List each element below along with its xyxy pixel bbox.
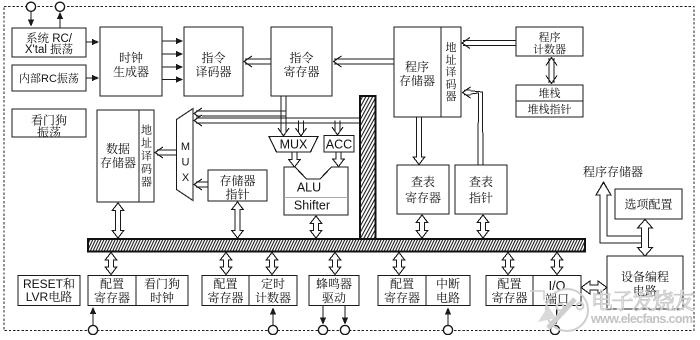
wire buzzer driver to pin P6 — [342, 306, 348, 325]
data memory 数据存储器 with address decoder strip — [97, 110, 154, 202]
ALU / Shifter U1 — [284, 167, 348, 215]
wire clock generator to decoder 1 — [162, 38, 183, 44]
wire buzzer driver to pin P5 — [320, 306, 326, 325]
svg-text:寄存器: 寄存器 — [491, 289, 527, 306]
wire MUX1 to data memory address decoder — [155, 147, 177, 158]
svg-text:堆栈指针: 堆栈指针 — [528, 101, 572, 117]
wire bus to buzzer driver — [329, 253, 341, 275]
svg-text:时钟: 时钟 — [150, 289, 174, 306]
svg-text:器: 器 — [141, 174, 152, 190]
pin P2 (top circle) — [55, 2, 64, 11]
wire data memory to bus — [112, 203, 124, 238]
svg-text:计数器: 计数器 — [255, 289, 291, 306]
wire table lookup register to bus — [416, 215, 428, 238]
wire ACC to ALU — [333, 152, 345, 167]
watchdog oscillator 看门狗振荡 — [12, 109, 86, 141]
svg-text:驱动: 驱动 — [322, 289, 346, 306]
svg-text:LVR电路: LVR电路 — [26, 288, 72, 305]
clock generator 时钟生成器 — [100, 27, 162, 96]
svg-text:指针: 指针 — [225, 186, 249, 203]
svg-text:生成器: 生成器 — [113, 63, 149, 80]
wire clock generator to decoder 3 — [162, 64, 183, 70]
svg-text:Shifter: Shifter — [294, 199, 330, 213]
bus (vertical data bus bar) — [280, 95, 455, 242]
svg-text:存储器: 存储器 — [100, 154, 136, 171]
wire bus to timer counter — [266, 253, 278, 275]
svg-text:X'tal 振荡: X'tal 振荡 — [25, 41, 73, 57]
option config 选项配置 — [615, 189, 682, 219]
instruction register 指令寄存器 — [271, 27, 332, 96]
oscillator OSC1 box 系统RC/Xtal振荡 — [12, 28, 86, 57]
wire OSC1 to clock generator — [86, 39, 99, 45]
config register 配置寄存器 / I/O port I/O端口 — [486, 275, 581, 307]
wire table lookup pointer to program memory address decoder — [463, 87, 483, 165]
wire drop to ACC input — [332, 121, 343, 136]
svg-text:查表: 查表 — [411, 173, 435, 190]
wire memory pointer to bus — [232, 202, 244, 238]
reset/LVR circuit RESET和LVR电路 — [18, 275, 80, 306]
svg-text:X: X — [182, 169, 190, 185]
wire bus to config register 4 — [502, 253, 514, 275]
device programming circuit 设备编程电路 — [607, 256, 683, 309]
svg-text:www.elecfans.com: www.elecfans.com — [590, 312, 693, 326]
svg-text:器: 器 — [446, 88, 457, 104]
wire ALU to bus — [310, 216, 322, 238]
table lookup pointer 查表指针 — [455, 165, 507, 214]
wire option config to device programming (bidir) — [638, 220, 653, 257]
accumulator ACC — [324, 136, 354, 153]
wire program memory to instruction register — [334, 56, 395, 67]
svg-text:寄存器: 寄存器 — [405, 189, 441, 206]
wire I/O port to pin P8 — [553, 306, 559, 325]
svg-text:译码器: 译码器 — [195, 63, 231, 80]
pin P8 (bottom circle) — [550, 325, 559, 334]
wire instruction register to decoder — [244, 56, 271, 67]
wire bus to config register 1 — [105, 253, 117, 275]
svg-text:ALU: ALU — [297, 181, 321, 195]
wire program counter to stack (bidir) — [546, 58, 557, 84]
wire pin P3 to RESET circuit — [90, 307, 96, 325]
wire MUX2 to ALU — [289, 152, 301, 167]
pin P6 (bottom circle) — [340, 325, 349, 334]
svg-text:M: M — [181, 138, 190, 154]
watermark logo — [530, 289, 588, 331]
wire branch to MUX1 upper input — [194, 108, 286, 119]
svg-text:ACC: ACC — [326, 138, 352, 152]
pin P1 (top circle) — [26, 2, 35, 11]
wire program memory to table lookup register — [413, 117, 425, 165]
buzzer driver 蜂鸣器驱动 — [309, 275, 359, 306]
program counter 程序计数器 — [516, 27, 583, 57]
wire I/O port to device programming (bidir) — [581, 281, 607, 294]
wire bus to config register 3 — [393, 253, 405, 275]
wire instruction register down to MUX2 — [278, 96, 289, 136]
svg-text:程序存储器: 程序存储器 — [583, 163, 643, 180]
instruction decoder 指令译码器 — [184, 27, 243, 96]
config register 配置寄存器 / interrupt circuit 中断电路 — [378, 275, 470, 306]
oscillator OSC2 box 内部RC振荡 — [12, 65, 86, 91]
pin P5 (bottom circle) — [318, 325, 327, 334]
wire clock generator to decoder 4 — [162, 76, 183, 82]
stack 堆栈 / stack pointer 堆栈指针 — [516, 85, 583, 117]
wire clock generator to decoder 2 — [162, 51, 183, 57]
wire pin P4 to timer counter — [270, 308, 276, 326]
svg-text:寄存器: 寄存器 — [283, 63, 319, 80]
wire memory pointer to MUX1 — [194, 179, 208, 190]
program memory 程序存储器 with address decoder strip — [394, 27, 461, 117]
svg-text:内部RC振荡: 内部RC振荡 — [19, 70, 79, 86]
memory pointer 存储器指针 — [208, 170, 267, 203]
wire bus to config register 2 — [220, 253, 232, 275]
program memory label 程序存储器 (external) — [583, 163, 643, 180]
mux MUX1 (vertical) — [177, 109, 194, 201]
bus (horizontal data bus bar) — [81, 238, 592, 253]
wire branch up to program memory label — [596, 182, 642, 243]
svg-text:MUX: MUX — [280, 138, 308, 152]
wire OSC1 to pin P2 — [57, 12, 63, 28]
svg-text:U: U — [182, 154, 190, 170]
pin P4 (bottom circle) — [268, 325, 277, 334]
wire pin P1 to OSC1 — [28, 12, 34, 27]
pin P3 (bottom circle) — [88, 325, 97, 334]
svg-text:计数器: 计数器 — [533, 41, 566, 57]
svg-text:选项配置: 选项配置 — [624, 196, 672, 213]
svg-text:查表: 查表 — [469, 173, 493, 190]
wire data bus to MUX1/MUX2/ACC — [194, 115, 360, 126]
svg-text:堆栈: 堆栈 — [539, 85, 561, 101]
wire program counter to address decoder — [462, 38, 516, 49]
wire drop to MUX2 right input — [296, 121, 307, 137]
wire bus to I/O port — [551, 253, 563, 275]
wire pin P7 to interrupt circuit — [445, 308, 451, 326]
svg-text:存储器: 存储器 — [399, 72, 435, 89]
svg-text:指针: 指针 — [469, 189, 493, 206]
svg-text:寄存器: 寄存器 — [94, 289, 130, 306]
svg-text:寄存器: 寄存器 — [384, 289, 420, 306]
mux MUX2 (horizontal) — [269, 137, 318, 153]
table lookup register 查表寄存器 — [397, 165, 449, 214]
wire OSC2 to clock generator — [86, 75, 99, 81]
config register 配置寄存器 / timer counter 定时计数器 — [202, 275, 297, 306]
wire table lookup pointer to bus — [477, 215, 489, 238]
watermark text — [590, 285, 695, 326]
svg-text:寄存器: 寄存器 — [207, 289, 243, 306]
svg-text:电路: 电路 — [436, 289, 460, 306]
config register 配置寄存器 / watchdog clock 看门狗时钟 — [88, 275, 188, 306]
svg-text:振荡: 振荡 — [37, 124, 61, 141]
pin P7 (bottom circle) — [443, 325, 452, 334]
